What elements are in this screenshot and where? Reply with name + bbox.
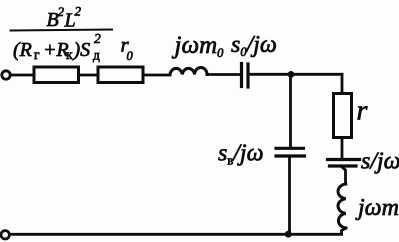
svg-text:2: 2 [94, 31, 101, 46]
value label fraction numerator B2L2 [47, 4, 82, 32]
svg-text:д: д [93, 48, 100, 63]
wire resistor r to capacitor s [341, 138, 344, 160]
wire capacitor s0 to corner via node A [250, 73, 343, 76]
node A junction dot [288, 71, 295, 78]
svg-text:г: г [34, 47, 40, 62]
capacitor s bottom plate [330, 164, 357, 167]
wire inductor m0 to capacitor s0 [207, 73, 240, 76]
svg-text:sв/jω: sв/jω [218, 141, 264, 168]
svg-text:2: 2 [58, 4, 65, 19]
wire corner down to resistor r [341, 74, 344, 93]
svg-text:r: r [357, 96, 368, 127]
svg-text:jωm: jωm [355, 195, 399, 221]
svg-text:jωm0: jωm0 [172, 32, 225, 60]
svg-text:(R: (R [13, 39, 32, 61]
svg-text:s/jω: s/jω [361, 149, 399, 175]
inductor m coil [338, 184, 346, 228]
svg-text:к: к [66, 47, 73, 62]
capacitor s0 right plate [246, 64, 249, 87]
wire terminal to R-box [11, 74, 35, 77]
svg-text:2: 2 [75, 4, 82, 19]
capacitor sv bottom plate [276, 154, 305, 157]
svg-text:0: 0 [127, 49, 134, 63]
capacitor s0 left plate [240, 64, 243, 87]
capacitor sv top plate [276, 147, 304, 150]
resistor r box [334, 94, 352, 138]
svg-text:+R: +R [43, 39, 69, 61]
fraction bar [11, 30, 113, 31]
resistor r0 box [98, 67, 143, 83]
wire bottom rail [10, 233, 342, 236]
wire r0 to inductor m0 [143, 74, 170, 77]
wire between resistor boxes [79, 74, 99, 77]
inductor m0 coil [170, 68, 207, 75]
value label r0 [121, 33, 134, 64]
node B junction dot [285, 231, 292, 238]
resistor B2L2/((Rg+Rk)Sd2) box [34, 67, 79, 83]
wire inductor m to bottom rail corner [342, 228, 346, 234]
value label fraction denominator (Rg+Rk)Sd2 [13, 31, 101, 63]
wire capacitor s to inductor m [343, 168, 346, 185]
capacitor s top plate [328, 158, 360, 161]
wire capacitor sv to node B [288, 156, 291, 234]
terminal top-left input [2, 71, 10, 79]
wire node A down to capacitor sv [289, 76, 292, 149]
svg-text:)S: )S [73, 39, 91, 61]
svg-text:s0/jω: s0/jω [231, 32, 277, 59]
terminal bottom-left input [1, 231, 9, 239]
